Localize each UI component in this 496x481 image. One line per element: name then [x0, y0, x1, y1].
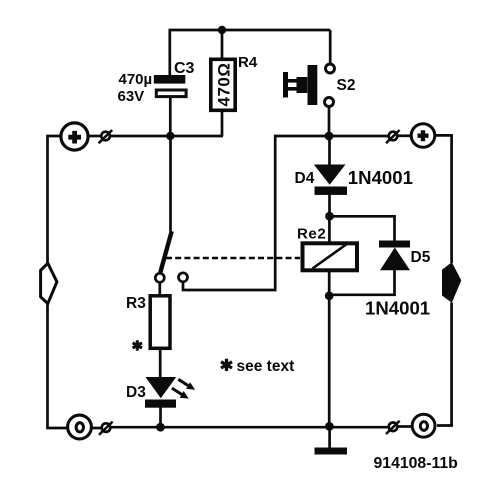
pushbutton S2 top terminal — [326, 64, 335, 73]
wire right rail bottom — [437, 303, 452, 426]
junction node D3 bottom — [156, 423, 165, 432]
relay contact left pole — [155, 273, 164, 282]
svg-text:914108-11b: 914108-11b — [374, 455, 458, 472]
wire R4 bottom lead — [221, 111, 224, 136]
diode D5 cathode bar — [379, 241, 410, 248]
junction node relay bottom — [325, 291, 334, 300]
wire relay top lead — [328, 216, 331, 242]
wire R3 bottom lead — [159, 349, 162, 378]
wire left stub plus — [88, 135, 100, 138]
wire ground stem — [328, 427, 331, 449]
junction node top — [218, 26, 226, 34]
wire bottom-right stub — [398, 425, 412, 428]
wire D4 top lead — [328, 136, 331, 166]
terminal + left — [61, 123, 88, 150]
wire C3 top lead — [168, 30, 171, 76]
wire top rail — [169, 29, 331, 32]
terminal 0 left — [68, 415, 92, 439]
wire right stub plus — [398, 134, 412, 137]
wire plus right to rail — [435, 135, 452, 263]
relay Re2 slash — [313, 244, 348, 269]
input arrow left (outline) — [41, 263, 57, 303]
pushbutton S2 prong top — [288, 79, 298, 83]
wire S2 bottom lead — [328, 107, 331, 136]
terminal + right — [411, 124, 435, 148]
svg-text:R4: R4 — [238, 54, 258, 71]
wire left rail bottom — [48, 303, 67, 428]
connector plug top-right — [386, 130, 400, 143]
junction node C3 bottom — [166, 132, 174, 140]
wire NO contact path — [183, 136, 329, 290]
terminal 0 right — [412, 414, 435, 437]
svg-text:R3: R3 — [126, 295, 146, 312]
svg-text:63V: 63V — [118, 88, 145, 105]
svg-text:470µ: 470µ — [119, 71, 153, 88]
svg-text:S2: S2 — [337, 77, 356, 94]
svg-text:Re2: Re2 — [297, 226, 326, 243]
LED D3 cathode bar — [145, 400, 176, 408]
LED D3 triangle — [146, 377, 177, 398]
ground symbol — [315, 448, 348, 455]
wire R4 top lead — [221, 30, 224, 58]
wire center-left vertical — [169, 136, 172, 232]
diode D5 triangle — [380, 248, 410, 271]
svg-text:470Ω: 470Ω — [214, 62, 233, 106]
junction node S2 bottom — [325, 132, 334, 141]
connector plug top-left — [99, 130, 113, 143]
svg-text:1N4001: 1N4001 — [365, 298, 430, 319]
svg-text:C3: C3 — [174, 60, 195, 77]
wire S2 node to right connector — [329, 135, 388, 138]
pushbutton S2 contact bar — [308, 65, 318, 105]
svg-text:D5: D5 — [411, 249, 431, 266]
LED D3 light arrow 2 — [172, 388, 189, 399]
svg-text:see text: see text — [237, 358, 295, 375]
asterisk see-text — [221, 359, 232, 371]
diode D4 triangle — [314, 165, 346, 185]
wire D4 bottom lead — [328, 195, 331, 217]
mechanical link dashed line Re2 — [166, 257, 300, 260]
diode D4 cathode bar — [315, 187, 348, 195]
wire + node horizontal — [111, 135, 223, 138]
wire D3 bottom lead — [159, 407, 162, 427]
wire D5 bottom path — [329, 270, 394, 295]
pushbutton S2 prong bottom — [288, 87, 298, 91]
asterisk R3 — [133, 340, 142, 350]
svg-text:D4: D4 — [295, 170, 315, 187]
resistor R4 body — [211, 59, 235, 110]
wire bottom rail — [109, 426, 388, 429]
wire R3 top lead — [158, 282, 161, 296]
svg-text:1N4001: 1N4001 — [348, 167, 413, 188]
wire S2 top lead — [329, 30, 332, 64]
wire relay bottom lead — [328, 272, 331, 296]
svg-text:D3: D3 — [126, 384, 146, 401]
output arrow right (filled) — [442, 262, 461, 302]
pushbutton S2 bottom terminal — [325, 98, 334, 107]
wire center vertical to ground node — [328, 296, 331, 427]
connector plug bottom-right — [386, 421, 400, 434]
capacitor C3 bottom plate — [156, 90, 186, 97]
pushbutton S2 plunger block — [297, 77, 308, 93]
connector plug bottom-left — [99, 422, 113, 435]
relay contact arm — [160, 231, 171, 272]
junction node ground — [325, 422, 334, 431]
capacitor C3 top plate — [154, 75, 186, 84]
junction node D4 cathode — [325, 212, 334, 221]
wire bottom-left stub — [90, 427, 101, 430]
resistor R3 body — [150, 296, 170, 349]
relay Re2 coil box — [303, 243, 358, 270]
wire node to D5 top — [330, 216, 395, 241]
relay contact right pole — [179, 273, 188, 282]
LED D3 light arrow 1 — [178, 379, 195, 390]
wire left rail top — [48, 136, 61, 264]
pushbutton S2 cap bar — [283, 72, 288, 98]
wire C3 bottom lead — [169, 97, 172, 136]
